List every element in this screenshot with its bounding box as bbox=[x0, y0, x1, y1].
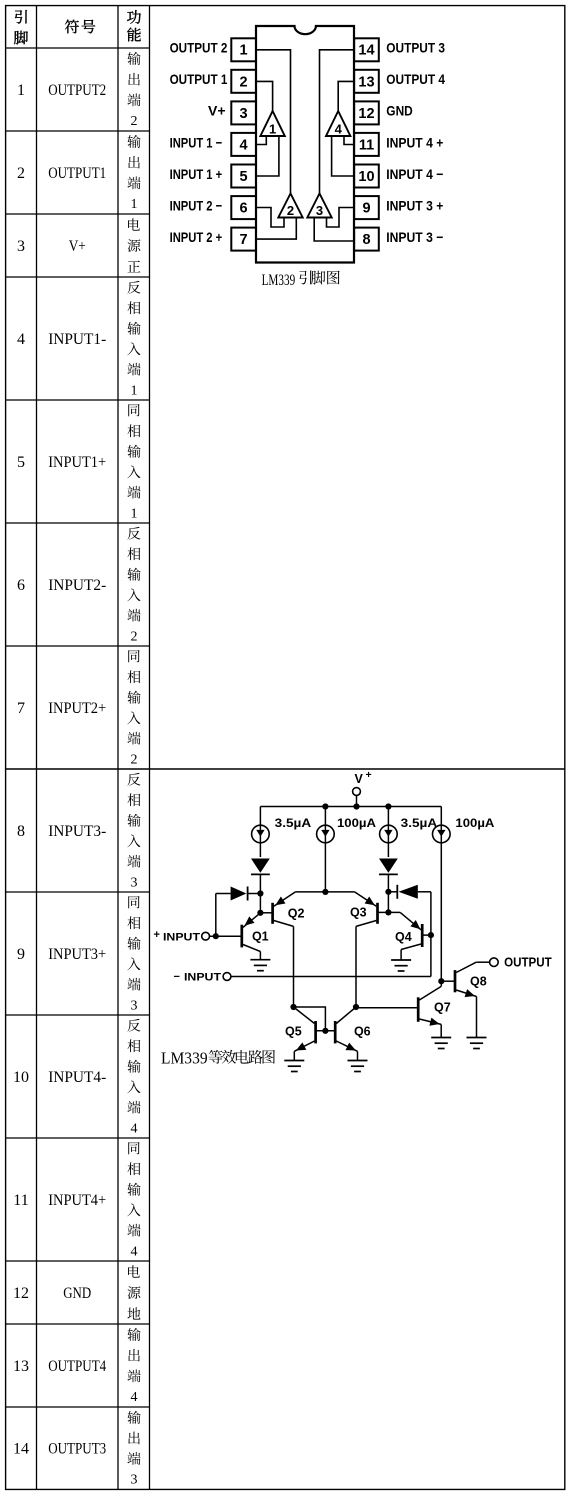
pin 6 box bbox=[231, 196, 256, 219]
transistor Q5 (NPN mirror) bbox=[285, 1007, 335, 1061]
wire -INPUT rail bbox=[231, 976, 431, 978]
junction dot node B (Q3 base / Q4 emitter) bbox=[385, 909, 391, 915]
svg-text:13: 13 bbox=[358, 74, 374, 90]
svg-text:10: 10 bbox=[358, 169, 374, 185]
svg-text:3.5µA: 3.5µA bbox=[401, 816, 438, 830]
svg-text:GND: GND bbox=[386, 103, 413, 119]
svg-text:1: 1 bbox=[17, 82, 25, 99]
wire Q2/Q3 emitter rail bbox=[295, 891, 354, 893]
svg-text:Q1: Q1 bbox=[252, 930, 269, 944]
wire -INPUT riser to D4 bbox=[430, 892, 432, 977]
svg-text:2: 2 bbox=[131, 114, 138, 129]
wire bus to I1 bbox=[259, 807, 261, 826]
svg-text:INPUT 2 −: INPUT 2 − bbox=[170, 197, 223, 213]
svg-text:LM339: LM339 bbox=[262, 272, 296, 289]
wire mirror diode connection bbox=[294, 1007, 326, 1031]
wire I3 to diode D2 bbox=[387, 843, 389, 857]
pin 8 box bbox=[354, 228, 379, 251]
wire pin14 to comparator3 output bbox=[320, 50, 355, 194]
table row pin 14: OUTPUT3 bbox=[13, 1411, 141, 1488]
svg-text:INPUT 4 −: INPUT 4 − bbox=[386, 166, 443, 182]
table row pin 11: INPUT4+ bbox=[13, 1142, 140, 1259]
svg-text:2: 2 bbox=[131, 629, 138, 644]
svg-text:V+: V+ bbox=[208, 103, 226, 119]
svg-text:2: 2 bbox=[17, 165, 25, 182]
svg-text:+: + bbox=[366, 769, 372, 781]
table row pin 10: INPUT4- bbox=[13, 1019, 141, 1137]
table row pin 1: OUTPUT2 bbox=[17, 52, 141, 129]
junction dot Q5/Q6 base bbox=[322, 1028, 328, 1034]
pin 5 box bbox=[231, 165, 256, 188]
junction dot node A (Q2 base / Q1 emitter) bbox=[257, 910, 263, 916]
junction dot D2/D4 node bbox=[385, 889, 391, 895]
wire pin6 to comparator2 inverting input bbox=[256, 208, 284, 228]
svg-text:OUTPUT4: OUTPUT4 bbox=[48, 1358, 106, 1375]
svg-text:INPUT1-: INPUT1- bbox=[48, 331, 106, 348]
wire D3 cathode to node bbox=[248, 893, 261, 895]
svg-text:INPUT 4 +: INPUT 4 + bbox=[386, 134, 443, 150]
svg-text:1: 1 bbox=[131, 383, 138, 398]
wire pin11 to comparator4 non-inverting input bbox=[344, 136, 354, 145]
svg-text:7: 7 bbox=[240, 232, 248, 248]
wire pin10 to comparator4 inverting input bbox=[332, 136, 354, 176]
wire +INPUT to Q1 base bbox=[210, 935, 242, 937]
comparator 2 (op-amp triangle) bbox=[278, 194, 302, 218]
svg-text:6: 6 bbox=[240, 201, 248, 217]
ground Q7 emitter bbox=[431, 1037, 451, 1039]
svg-text:9: 9 bbox=[362, 201, 370, 217]
svg-text:9: 9 bbox=[17, 946, 25, 963]
svg-text:13: 13 bbox=[13, 1358, 29, 1375]
pin 10 box bbox=[354, 165, 379, 188]
svg-text:6: 6 bbox=[17, 577, 25, 594]
pin 3 box bbox=[231, 101, 256, 124]
svg-text:INPUT: INPUT bbox=[163, 931, 201, 943]
svg-text:12: 12 bbox=[358, 106, 374, 122]
svg-text:11: 11 bbox=[13, 1192, 28, 1209]
svg-text:OUTPUT2: OUTPUT2 bbox=[48, 82, 106, 99]
svg-text:1: 1 bbox=[131, 197, 138, 212]
wire bus to I3 bbox=[387, 807, 389, 826]
junction dot bus/3.5uA-2 bbox=[385, 803, 391, 809]
comparator 3 (op-amp triangle) bbox=[307, 194, 331, 218]
pin 1 box bbox=[231, 38, 256, 61]
diode D1 bbox=[251, 859, 270, 873]
ground Q4 collector bbox=[391, 959, 411, 961]
wire I2 to emitter rail bbox=[324, 843, 326, 892]
svg-text:OUTPUT3: OUTPUT3 bbox=[48, 1441, 106, 1458]
junction dot Q8 base tap bbox=[438, 978, 444, 984]
svg-text:8: 8 bbox=[17, 823, 25, 840]
transistor Q6 (NPN mirror) bbox=[335, 1007, 370, 1061]
svg-text:Q7: Q7 bbox=[434, 1001, 451, 1015]
ground Q5 emitter bbox=[284, 1060, 304, 1062]
comparator 1 (op-amp triangle) bbox=[260, 111, 284, 136]
table row pin 6: INPUT2- bbox=[17, 527, 141, 645]
svg-text:2: 2 bbox=[131, 752, 138, 767]
wire D1 to node A bbox=[259, 875, 261, 913]
junction dot Q6 collector node bbox=[353, 1004, 359, 1010]
svg-text:3.5µA: 3.5µA bbox=[275, 816, 312, 830]
svg-text:Q6: Q6 bbox=[354, 1024, 371, 1038]
svg-text:OUTPUT 4: OUTPUT 4 bbox=[386, 71, 445, 87]
svg-text:INPUT2-: INPUT2- bbox=[48, 577, 106, 594]
pin 13 box bbox=[354, 70, 379, 93]
LM339 pinout diagram bbox=[170, 26, 446, 289]
svg-text:LM339: LM339 bbox=[161, 1049, 208, 1068]
svg-text:OUTPUT 1: OUTPUT 1 bbox=[170, 71, 228, 87]
wire pin13 to comparator4 output bbox=[338, 81, 354, 111]
IC body DIP-14 outline with pin-1 notch bbox=[256, 26, 354, 263]
svg-text:Q5: Q5 bbox=[285, 1024, 302, 1038]
junction dot Q5 collector node bbox=[290, 1004, 296, 1010]
svg-text:INPUT 1 −: INPUT 1 − bbox=[170, 134, 223, 150]
LM339 equivalent circuit bbox=[154, 769, 553, 1072]
svg-text:3: 3 bbox=[131, 998, 138, 1013]
svg-text:12: 12 bbox=[13, 1285, 29, 1302]
table row pin 2: OUTPUT1 bbox=[17, 135, 141, 212]
svg-text:INPUT4-: INPUT4- bbox=[48, 1069, 106, 1086]
svg-text:V: V bbox=[355, 772, 364, 786]
diode D4 bbox=[399, 885, 418, 899]
svg-text:OUTPUT 2: OUTPUT 2 bbox=[170, 40, 228, 56]
transistor Q1 (PNP input) bbox=[242, 913, 269, 960]
ground Q6 emitter bbox=[348, 1060, 368, 1062]
pin 9 box bbox=[354, 196, 379, 219]
wire I4 down to Q7 collector bbox=[440, 843, 442, 987]
svg-text:4: 4 bbox=[131, 1244, 138, 1259]
svg-text:OUTPUT1: OUTPUT1 bbox=[48, 165, 106, 182]
wire bus to I2 bbox=[324, 807, 326, 826]
svg-text:8: 8 bbox=[362, 232, 370, 248]
pin 7 box bbox=[231, 228, 256, 251]
svg-text:10: 10 bbox=[13, 1069, 29, 1086]
wire D4 cathode to node bbox=[388, 891, 397, 893]
pin 2 box bbox=[231, 70, 256, 93]
table row pin 13: OUTPUT4 bbox=[13, 1328, 141, 1405]
svg-text:INPUT 1 +: INPUT 1 + bbox=[170, 166, 223, 182]
svg-text:Q8: Q8 bbox=[470, 975, 487, 989]
svg-text:Q3: Q3 bbox=[350, 906, 367, 920]
pin 11 box bbox=[354, 133, 379, 156]
svg-text:INPUT4+: INPUT4+ bbox=[48, 1192, 106, 1209]
junction dot bus/V+ bbox=[353, 803, 359, 809]
svg-text:4: 4 bbox=[240, 137, 248, 153]
table row pin 7: INPUT2+ bbox=[17, 650, 141, 767]
transistor Q4 (PNP) bbox=[388, 912, 431, 960]
svg-text:GND: GND bbox=[63, 1285, 91, 1302]
svg-text:1: 1 bbox=[269, 122, 276, 137]
table row pin 8: INPUT3- bbox=[17, 773, 141, 891]
junction dot bus/100uA-1 bbox=[322, 803, 328, 809]
svg-text:OUTPUT: OUTPUT bbox=[504, 956, 552, 970]
wire Q6 collector node to Q7 base bbox=[356, 1007, 418, 1009]
svg-text:11: 11 bbox=[359, 137, 374, 153]
wire pin5 to comparator1 non-inverting input bbox=[256, 136, 279, 176]
wire I1 to diode D1 bbox=[259, 843, 261, 857]
svg-text:5: 5 bbox=[240, 169, 248, 185]
svg-text:INPUT2+: INPUT2+ bbox=[48, 700, 106, 717]
junction dot Q4 base tap bbox=[428, 932, 434, 938]
current source I3 3.5uA bbox=[380, 825, 398, 843]
svg-text:3: 3 bbox=[131, 875, 138, 890]
svg-text:INPUT 3 +: INPUT 3 + bbox=[386, 197, 443, 213]
svg-text:INPUT: INPUT bbox=[184, 972, 222, 984]
wire Q8 collector to OUTPUT bbox=[476, 961, 489, 963]
wire D2 to node B bbox=[387, 875, 389, 913]
transistor Q2 (PNP) bbox=[260, 892, 304, 927]
node OUTPUT terminal bbox=[490, 958, 499, 967]
diode D2 bbox=[379, 859, 398, 873]
svg-text:INPUT 2 +: INPUT 2 + bbox=[170, 229, 223, 245]
svg-text:2: 2 bbox=[240, 74, 248, 90]
svg-text:3: 3 bbox=[131, 1473, 138, 1488]
svg-text:INPUT1+: INPUT1+ bbox=[48, 454, 106, 471]
ground Q8 emitter bbox=[467, 1037, 487, 1039]
current source I2 100uA bbox=[317, 825, 335, 843]
wire pin2 to comparator1 output bbox=[256, 81, 273, 111]
svg-text:−: − bbox=[174, 971, 180, 983]
table header cell: symbol column bbox=[65, 20, 95, 34]
pin 14 box bbox=[354, 38, 379, 61]
table row pin 3: V+ bbox=[17, 218, 140, 272]
svg-text:1: 1 bbox=[240, 43, 248, 59]
svg-text:Q4: Q4 bbox=[395, 930, 412, 944]
svg-text:4: 4 bbox=[17, 331, 25, 348]
pin 12 box bbox=[354, 101, 379, 124]
ground Q1 collector bbox=[250, 959, 270, 961]
wire pin7 to comparator2 non-inverting input bbox=[256, 218, 296, 240]
svg-text:4: 4 bbox=[131, 1390, 138, 1405]
wire bus to I4 bbox=[440, 807, 442, 826]
table header cell: function column bbox=[127, 10, 141, 41]
comparator 4 (op-amp triangle) bbox=[326, 111, 350, 136]
svg-text:OUTPUT 3: OUTPUT 3 bbox=[386, 40, 445, 56]
wire V+ to supply bus bbox=[356, 795, 358, 806]
wire +INPUT riser to diode D3 bbox=[216, 893, 231, 895]
junction dot emitter rail bbox=[322, 889, 328, 895]
svg-text:14: 14 bbox=[358, 43, 374, 59]
transistor Q3 (PNP) bbox=[350, 892, 388, 927]
svg-text:INPUT 3 −: INPUT 3 − bbox=[386, 229, 443, 245]
wire Q2 collector to current mirror bbox=[293, 926, 295, 1007]
svg-text:7: 7 bbox=[17, 700, 25, 717]
wire pin9 to comparator3 non-inverting input bbox=[327, 208, 355, 228]
wire pin1 to comparator2 output bbox=[256, 50, 291, 194]
wire +INPUT riser bbox=[215, 894, 217, 937]
table header cell: pin column bbox=[14, 10, 28, 44]
table row pin 12: GND bbox=[13, 1265, 141, 1319]
junction dot D1/D3 anode-cathode node bbox=[257, 890, 263, 896]
transistor Q8 (NPN output follower) bbox=[441, 962, 486, 1037]
table row pin 9: INPUT3+ bbox=[17, 896, 141, 1013]
svg-text:+: + bbox=[154, 929, 160, 941]
svg-text:1: 1 bbox=[131, 506, 138, 521]
svg-text:3: 3 bbox=[240, 106, 248, 122]
current source I4 100uA bbox=[433, 825, 451, 843]
svg-text:100µA: 100µA bbox=[455, 816, 494, 830]
svg-text:100µA: 100µA bbox=[337, 816, 376, 830]
svg-text:4: 4 bbox=[131, 1121, 138, 1136]
wire Q3 collector to current mirror bbox=[355, 926, 357, 1007]
svg-text:3: 3 bbox=[316, 203, 323, 218]
svg-text:14: 14 bbox=[13, 1441, 29, 1458]
wire -INPUT riser to diode D4 bbox=[418, 891, 431, 893]
supply bus bbox=[260, 806, 441, 808]
svg-text:4: 4 bbox=[335, 122, 343, 137]
transistor Q7 (NPN output driver) bbox=[418, 987, 451, 1038]
svg-text:Q2: Q2 bbox=[288, 906, 305, 920]
diode D3 bbox=[231, 887, 247, 901]
svg-text:2: 2 bbox=[287, 203, 294, 218]
svg-text:5: 5 bbox=[17, 454, 25, 471]
table row pin 5: INPUT1+ bbox=[17, 404, 141, 521]
pin 4 box bbox=[231, 133, 256, 156]
junction dot +INPUT/D3 bbox=[213, 933, 219, 939]
current source I1 3.5uA bbox=[252, 825, 270, 843]
wire pin4 to comparator1 inverting input bbox=[256, 136, 266, 145]
svg-text:INPUT3+: INPUT3+ bbox=[48, 946, 106, 963]
svg-text:3: 3 bbox=[17, 238, 25, 255]
svg-text:INPUT3-: INPUT3- bbox=[48, 823, 106, 840]
svg-text:V+: V+ bbox=[69, 238, 86, 255]
wire pin8 to comparator3 inverting input bbox=[314, 218, 354, 242]
table row pin 4: INPUT1- bbox=[17, 281, 141, 399]
